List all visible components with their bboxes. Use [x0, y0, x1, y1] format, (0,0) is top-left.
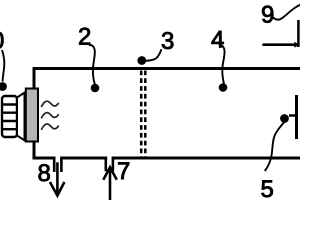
- burner ribbed body: [2, 96, 17, 137]
- leader 3: [145, 49, 162, 61]
- cone outlet edge: [24, 92, 26, 141]
- inflow arrow at port 7: [103, 167, 117, 200]
- node dot 3: [137, 56, 146, 65]
- port 8 left stub: [53, 158, 56, 172]
- heater plate (gray): [26, 89, 38, 142]
- label 8: [39, 164, 50, 181]
- port 7 right stub: [112, 158, 115, 171]
- node dot 4: [219, 83, 228, 92]
- heat squiggle 2: [41, 113, 58, 119]
- label 9: [262, 6, 273, 23]
- leader 2: [89, 45, 95, 84]
- label 7: [118, 162, 129, 179]
- port 7 left stub: [105, 158, 108, 171]
- leader 9: [272, 5, 300, 20]
- label 5: [261, 180, 272, 197]
- node dot 1: [0, 82, 7, 91]
- partial label at left edge: [0, 32, 3, 49]
- node dot 5: [280, 114, 289, 123]
- heat squiggle 1: [41, 101, 58, 107]
- heat squiggle 3: [41, 124, 58, 130]
- node dot 2: [91, 84, 100, 93]
- duct bottom wall segment C: [112, 157, 300, 160]
- port 8 right stub: [60, 158, 63, 172]
- leader 4: [219, 45, 225, 84]
- label 2: [79, 28, 90, 45]
- duct bottom wall segment A: [33, 157, 56, 160]
- label 3: [162, 32, 173, 49]
- duct top wall: [33, 67, 300, 70]
- burner nozzle cone: [17, 93, 25, 141]
- dashed partition line 3 (double dashed): [140, 71, 143, 158]
- outflow arrow at port 8: [50, 162, 65, 195]
- label 4: [212, 31, 224, 48]
- duct bottom wall segment B: [60, 157, 107, 160]
- sensor probe at right edge: [295, 95, 298, 139]
- outlet arrowhead: [294, 42, 299, 48]
- duct left wall: [33, 67, 36, 158]
- outlet vertical pipe: [297, 20, 300, 47]
- leader 1 (left edge): [2, 50, 4, 82]
- leader 5: [265, 123, 284, 172]
- sensor probe tick: [289, 114, 296, 117]
- outlet arrow 9 (top right): [264, 43, 295, 46]
